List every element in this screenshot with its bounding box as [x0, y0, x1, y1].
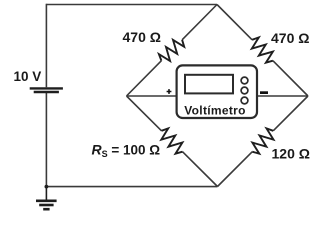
svg-text:120 Ω: 120 Ω: [272, 146, 310, 162]
wire: bottom-right arm plain segments: [218, 96, 309, 187]
ground bar 2: [39, 204, 53, 207]
wire: top-right arm plain segments: [217, 5, 308, 97]
ground stem: [45, 187, 47, 200]
wire: top from battery branch to diamond top vertex: [46, 4, 217, 6]
node: ground junction dot: [45, 185, 49, 189]
svg-text:470 Ω: 470 Ω: [271, 30, 309, 46]
battery 10V bottom plate: [34, 91, 59, 94]
wire: bottom from ground junction to diamond bottom vertex: [46, 186, 217, 188]
svg-text:RS = 100 Ω: RS = 100 Ω: [92, 142, 161, 160]
svg-text:470 Ω: 470 Ω: [123, 29, 161, 45]
resistor 120 ohm bottom-right zigzag: [252, 128, 273, 153]
wire: top-left arm plain segments: [127, 5, 218, 97]
wire: bridge middle right from voltmeter: [257, 95, 308, 97]
resistor 470 ohm top-left zigzag: [159, 40, 184, 61]
voltmeter body: [177, 65, 257, 118]
battery 10V top plate: [30, 87, 63, 89]
label: - terminal: [260, 91, 268, 94]
resistor 470 ohm top-right zigzag: [252, 37, 273, 62]
voltmeter button 2: [241, 87, 248, 94]
wire: bridge middle left to voltmeter: [127, 95, 178, 97]
ground bar 1: [36, 200, 57, 203]
svg-text:10 V: 10 V: [14, 69, 42, 84]
voltmeter button 1: [241, 77, 248, 84]
svg-text:Voltímetro: Voltímetro: [184, 104, 245, 118]
voltmeter button 3: [241, 97, 248, 104]
voltmeter display screen: [185, 75, 233, 94]
wire: bottom-left arm plain segments: [127, 96, 218, 187]
wire: left vertical battery branch: [45, 4, 47, 187]
label: + terminal: [167, 89, 172, 94]
ground bar 3: [43, 208, 49, 211]
resistor RS 100 ohm bottom-left zigzag: [161, 128, 182, 153]
